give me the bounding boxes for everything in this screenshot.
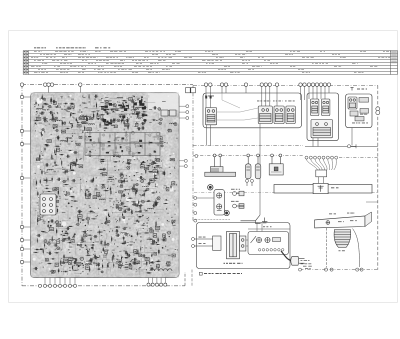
resistor R187 (67, 242, 72, 243)
transformer T619 (93, 196, 97, 199)
resistor R32 (140, 162, 146, 163)
transformer T476 (172, 182, 175, 185)
node N111 (154, 212, 155, 213)
capacitor C446 (119, 106, 123, 109)
resistor R115 (43, 249, 44, 255)
resistor R152 (69, 103, 74, 104)
resistor R306 (127, 163, 132, 165)
AC plug PL1 (291, 256, 305, 265)
resistor R470 (158, 237, 159, 243)
resistor R515 (123, 116, 124, 121)
inductor L416 (123, 108, 129, 109)
resistor R458 (37, 191, 38, 197)
transformer T271 (78, 215, 82, 219)
node N603 (77, 244, 79, 246)
resistor R16 (33, 252, 38, 253)
table row text (illegible scan) (24, 51, 391, 73)
transistor Q438 (118, 261, 121, 263)
capacitor C163 (122, 241, 126, 244)
resistor R556 (40, 194, 43, 199)
transformer T367 (150, 179, 154, 182)
inductor L39 (121, 233, 127, 234)
tube socket V4 (40, 194, 56, 215)
resistor R533 (156, 244, 161, 245)
resistor R257 (149, 262, 155, 263)
transistor Q58 (155, 133, 159, 136)
node N420 (110, 104, 111, 105)
socket S5 in box B (311, 99, 319, 116)
transistor Q182 (98, 142, 101, 144)
resistor R280 (151, 192, 156, 193)
transistor Q155 (81, 116, 85, 119)
transistor Q65 (106, 243, 109, 245)
transistor Q183 (51, 119, 55, 121)
node N83 (48, 221, 50, 223)
node N428 (146, 167, 148, 169)
node N81 (143, 161, 145, 163)
resistor R379 (131, 113, 136, 114)
PCB schematic panel outline (31, 93, 180, 278)
transformer T240 (55, 187, 58, 189)
capacitor C439 (133, 258, 137, 261)
resistor R175 (62, 120, 64, 126)
resistor R418 (86, 115, 87, 121)
resistor R468 (95, 256, 100, 259)
node N127 (114, 140, 116, 142)
capacitor C613 (148, 153, 152, 156)
PCB light corner zone (148, 93, 178, 110)
transformer T389 (57, 240, 60, 244)
capacitor C114 (130, 100, 134, 103)
node N539 (140, 236, 141, 237)
node N241 (165, 199, 167, 201)
resistor R62 (73, 201, 78, 202)
resistor R237 (45, 145, 50, 146)
transformer T196 (67, 192, 70, 195)
capacitor C422 (94, 95, 98, 98)
inductor L426 (137, 118, 143, 119)
node N29 (55, 121, 56, 122)
socket S6 in box B (322, 99, 330, 116)
transformer T101 (53, 102, 56, 105)
wires from callouts into box A (206, 87, 305, 108)
inductor L305 (50, 119, 56, 120)
resistor R351 (146, 272, 152, 273)
heater wiring in box A (217, 93, 258, 120)
transistor Q86 (158, 118, 162, 121)
transformer T364 (64, 259, 68, 263)
transformer T6 (69, 257, 73, 260)
dial scale bar (274, 185, 372, 194)
resistor R227 (127, 104, 130, 110)
capacitor C66 (67, 237, 71, 240)
transistor Q594 (101, 185, 105, 188)
node N330 (90, 152, 91, 153)
switch assembly box (248, 232, 289, 255)
dial bar left terminals (246, 179, 254, 186)
resistor R26 (125, 250, 127, 256)
sheet edge lines (9, 31, 398, 303)
inductor L104 (135, 107, 141, 108)
resistor R191 (118, 217, 121, 222)
resistor R529 (88, 220, 89, 225)
capacitor C170 (56, 136, 60, 139)
resistor R250 (111, 256, 114, 262)
node N188 (85, 245, 87, 247)
transformer T88 (82, 122, 86, 124)
primary tap box (195, 236, 222, 250)
transistor Q124 (62, 122, 65, 124)
resistor R527 (146, 261, 147, 267)
resistor R195 (104, 240, 105, 245)
resistor R75 (114, 152, 120, 153)
motor unit M1 (269, 154, 283, 175)
resistor R57 (34, 120, 40, 121)
resistor R11 (116, 137, 122, 138)
resistor R231 (76, 158, 78, 163)
resistor R52 (158, 264, 159, 270)
transistor Q419 (142, 114, 145, 116)
top edge terminal callouts (20, 83, 330, 86)
inductor L206 (60, 140, 66, 141)
resistor R19 (154, 202, 159, 203)
transistor Q279 (141, 200, 145, 203)
resistor R35 (106, 216, 107, 222)
node N407 (150, 180, 152, 182)
inductor L572 (95, 196, 101, 197)
resistor R214 (156, 201, 157, 206)
node N68 (55, 154, 57, 156)
switch lever (251, 236, 257, 243)
resistor R23 (88, 94, 91, 100)
capacitor C560 (90, 179, 94, 182)
capacitor C332 (152, 240, 156, 243)
resistor R320 (145, 168, 146, 174)
resistor R462 (71, 163, 76, 165)
resistor R22 (82, 103, 87, 104)
transistor Q415 (56, 247, 60, 250)
node N239 (134, 96, 135, 97)
transformer T549 (45, 258, 48, 261)
resistor R403 (104, 121, 105, 127)
transistor Q521 (118, 208, 122, 211)
transformer T522 (157, 159, 160, 161)
PCB mounting holes (33, 95, 175, 270)
resistor R143 (123, 206, 128, 207)
jack J1 (233, 191, 244, 196)
capacitor C201 (141, 126, 145, 129)
harness wires to connector (307, 159, 337, 170)
transformer T179 (135, 124, 138, 127)
resistor R180 (47, 207, 52, 209)
resistor R604 (68, 150, 73, 151)
transistor Q185 (49, 206, 53, 209)
transformer T425 (156, 265, 159, 268)
resistor R112 (51, 154, 52, 160)
resistor R378 (150, 243, 156, 244)
resistor R362 (68, 226, 74, 227)
capacitor C256 (40, 112, 44, 115)
resistor R269 (44, 144, 49, 145)
transformer T202 (36, 118, 41, 121)
resistor R365 (69, 196, 75, 197)
transistor Q361 (124, 134, 128, 137)
harness connector J5 (316, 170, 327, 177)
resistor R311 (121, 256, 122, 261)
capacitor C229 (64, 170, 68, 173)
node N45 (143, 161, 144, 162)
resistor R235 (62, 238, 68, 239)
resistor R520 (97, 232, 103, 233)
transistor Q308 (43, 240, 47, 243)
resistor R130 (84, 189, 89, 190)
transformer T46 (53, 188, 57, 191)
capacitor C87 (71, 179, 75, 182)
transformer T385 (79, 117, 83, 119)
node N563 (97, 118, 99, 120)
resistor R477 (155, 165, 161, 166)
resistor R12 (133, 104, 134, 109)
transistor Q41 (130, 132, 134, 135)
capacitor C24 (89, 260, 93, 263)
transformer T490 (124, 124, 129, 127)
transformer T189 (37, 158, 40, 161)
capacitor C194 (74, 258, 78, 261)
resistor R398 (99, 230, 100, 235)
resistor R433 (48, 224, 49, 229)
capacitor C42 (119, 173, 123, 176)
resistor R404 (113, 149, 114, 155)
capacitor C410 (104, 221, 108, 224)
capacitor C387 (143, 106, 147, 109)
resistor R60 in switch box (273, 238, 281, 242)
resistor R400 (132, 109, 137, 110)
pilot lamp parts above socket S1 (205, 96, 211, 99)
capacitor C148 (120, 202, 124, 205)
transformer T609 (71, 105, 74, 108)
resistor R421 (70, 112, 71, 117)
resistor R510 (135, 191, 136, 196)
resistor R169 (156, 221, 157, 227)
node N120 (82, 263, 83, 264)
inductor L430 (156, 168, 162, 169)
transformer T94 (38, 217, 41, 221)
wires from callouts into box B (309, 87, 329, 100)
transistor Q610 (79, 257, 83, 260)
transistor Q226 (157, 108, 161, 111)
transistor Q555 (126, 166, 130, 169)
resistor R73 (82, 231, 88, 232)
capacitor C203 (94, 256, 98, 259)
transistor Q528 (55, 129, 58, 131)
resistor R324 (102, 264, 103, 269)
heater bus wire right (305, 146, 378, 148)
transformer T601 (103, 173, 107, 176)
node N570 (86, 152, 87, 153)
resistor R606 (100, 161, 106, 162)
hanger line terminal (195, 155, 198, 158)
speaker wiring labels (301, 260, 312, 264)
resistor R374 (87, 235, 92, 236)
node N479 (169, 236, 170, 237)
transistor Q582 (119, 175, 123, 178)
jack plate (214, 190, 224, 215)
resistor R295 (128, 151, 133, 152)
transformer T51 (56, 224, 60, 226)
node N177 (138, 261, 139, 262)
capacitor C291 (154, 203, 158, 206)
resistor R534 (161, 239, 166, 240)
resistor R414 (46, 177, 47, 183)
resistor R234 (137, 112, 138, 118)
speaker mounting plate (315, 216, 365, 228)
resistor R337 (101, 169, 106, 171)
resistor R363 (115, 110, 120, 111)
transformer T20 (120, 185, 123, 187)
resistor R224 (115, 226, 120, 227)
tube box U2 outline (307, 93, 339, 141)
resistor R100 (39, 154, 40, 159)
transformer T395 (101, 144, 105, 147)
transformer T502 (97, 192, 100, 195)
resistor R314 (82, 235, 83, 241)
transistor Q173 (153, 202, 157, 205)
resistor R210 (63, 254, 64, 259)
chassis dash-dot line mid (194, 192, 378, 194)
resistor R546 (100, 122, 101, 127)
resistor R366 (146, 165, 151, 166)
component hanger dash line (193, 154, 303, 156)
socket S7 in box B (311, 120, 333, 138)
transformer T265 (54, 200, 59, 202)
bottom terminal line (300, 269, 378, 271)
resistor R133 (54, 165, 59, 166)
plate right bracket (365, 212, 372, 227)
resistor R483 (35, 101, 36, 106)
capacitor C80 (101, 147, 105, 150)
resistor R392 (63, 271, 68, 272)
resistor R523 (51, 258, 56, 259)
resistor R232 (98, 137, 99, 143)
chassis boundary dash right vertical (377, 86, 379, 270)
tube heater box U1 outline (203, 93, 302, 128)
inductor L272 (170, 123, 176, 124)
transformer T471 (155, 158, 159, 160)
resistor R49 (73, 269, 78, 272)
note marker (199, 272, 202, 275)
transformer T565 (144, 167, 148, 170)
transistor Q186 (125, 119, 129, 121)
inductor L220 (119, 115, 125, 116)
capacitor C576 (93, 235, 97, 238)
chassis boundary dash-dot left vertical (21, 85, 23, 286)
inductor L566 (86, 264, 92, 265)
transformer T176 (172, 254, 175, 257)
resistor R128 (113, 253, 115, 259)
capacitor C577 (40, 209, 44, 212)
resistor R453 (54, 149, 55, 154)
transformer T517 (163, 238, 166, 241)
transformer T126 (72, 163, 76, 165)
trimmer box CT2 (170, 110, 177, 116)
resistor R511 (53, 205, 59, 208)
node N592 (70, 164, 71, 165)
transistor Q484 (76, 223, 80, 225)
node N219 (154, 167, 156, 169)
resistor R264 (36, 180, 37, 186)
capacitor C452 (152, 204, 156, 207)
capacitor C167 (122, 194, 126, 197)
capacitor C118 (132, 261, 136, 264)
transformer T140 (170, 159, 175, 161)
resistor R512 (158, 170, 159, 176)
inductor L590 (117, 97, 123, 98)
node N18 (47, 109, 48, 110)
speaker label (339, 249, 345, 252)
transistor Q412 (61, 262, 64, 264)
transformer feed terminals on border (192, 238, 195, 248)
oscillator box U3 outline (346, 94, 372, 128)
resistor R346 (103, 209, 109, 210)
transformer T559 (159, 137, 163, 140)
socket S1 in box A (205, 108, 216, 125)
resistor R409 (133, 183, 134, 188)
resistor R495 (87, 154, 92, 155)
resistor R397 (121, 243, 127, 244)
resistor R276 (105, 122, 111, 123)
node N591 (109, 216, 110, 217)
resistor R92 (154, 173, 155, 179)
capacitor C481 (150, 267, 154, 270)
resistor R541 (81, 219, 86, 220)
resistor R137 (54, 252, 59, 253)
wire border to plate (197, 197, 214, 199)
power assembly outline (196, 223, 290, 269)
resistor R352 (65, 128, 70, 129)
resistor R125 (69, 170, 75, 171)
dial pointer box (313, 183, 328, 193)
transistor Q500 (147, 134, 151, 136)
hole H4 (126, 197, 130, 201)
resistor R258 (148, 171, 154, 172)
resistor R413 (47, 190, 52, 193)
transistor Q558 (54, 117, 58, 119)
bottom border corner hook (184, 272, 186, 286)
resistor R233 (93, 177, 94, 183)
output coil L9 (150, 269, 172, 271)
resistor R334 (51, 97, 52, 102)
trimmer bank in box C (350, 98, 369, 121)
inductor L542 (82, 123, 88, 124)
transistor Q355 (160, 145, 163, 147)
hole H3 (62, 222, 67, 227)
node N514 (74, 233, 76, 235)
wire to switch box (246, 223, 290, 247)
labels in box C (352, 114, 368, 124)
transformer T270 (53, 125, 57, 128)
node N488 (137, 99, 138, 100)
transformer T579 (87, 128, 92, 131)
left edge terminal callouts (20, 95, 23, 263)
transistor Q519 (100, 271, 103, 273)
node N454 (142, 215, 143, 216)
capacitor C105 (66, 227, 70, 230)
resistor R441 (62, 235, 67, 236)
node N156 (62, 231, 63, 232)
chassis boundary dash top horizontal right part (193, 85, 378, 87)
transistor Q297 (105, 100, 109, 103)
resistor R38 (35, 249, 40, 250)
